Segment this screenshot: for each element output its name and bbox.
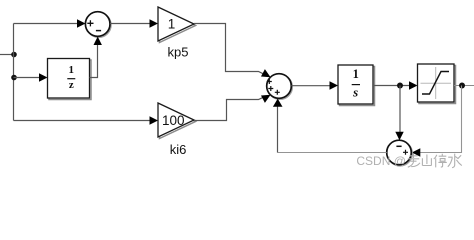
wire Sum3 output left and up to Sum2 bottom input (273, 99, 387, 153)
wire gain kp5 output to Sum2 upper-left input (194, 24, 271, 78)
watermark CSDN (356, 154, 406, 168)
node junction after integrator (397, 83, 403, 89)
sum block Sum1 (top left, +−) (85, 12, 111, 38)
watermark chinese glyphs (408, 154, 462, 168)
wire input from left edge (0, 54, 14, 56)
wire gain ki6 output to Sum2 lower-left input (194, 95, 271, 121)
wire feedback from integrator junction down to Sum3 top (395, 86, 403, 141)
node input junction (11, 52, 17, 58)
saturation block (418, 64, 456, 104)
svg-text:ki6: ki6 (170, 142, 187, 157)
integrator block 1/s (338, 65, 375, 106)
svg-text:1: 1 (168, 17, 176, 32)
wire saturation output to right edge (454, 85, 474, 87)
svg-text:kp5: kp5 (168, 45, 189, 60)
svg-text:1: 1 (353, 67, 359, 81)
svg-text:s: s (352, 85, 358, 100)
gain block ki6 (value 100) (158, 103, 196, 139)
sum block Sum2 (middle, +++) (267, 74, 293, 100)
sum block Sum3 (bottom right, −+) (387, 140, 413, 166)
unit delay block 1/z (48, 59, 92, 100)
label kp5 (168, 45, 189, 60)
wire to Sum1 left input (14, 19, 86, 27)
wire unit delay output up to Sum1 bottom (90, 37, 102, 78)
svg-text:z: z (69, 79, 74, 91)
wire to unit delay input (14, 73, 48, 81)
wire left vertical bus (13, 24, 15, 121)
wire Sum2 output to integrator (291, 81, 338, 89)
wire to gain ki6 input (14, 116, 159, 124)
svg-text:CSDN @: CSDN @ (356, 154, 406, 168)
svg-text:100: 100 (162, 113, 185, 128)
gain block kp5 (value 1) (158, 7, 196, 43)
wire Sum1 output to gain kp5 (110, 19, 158, 27)
wire integrator output to saturation (373, 81, 418, 89)
wire feedback from saturation junction down and left to Sum3 right (412, 86, 462, 157)
node junction after saturation (459, 83, 465, 89)
node branch to unit delay (11, 75, 17, 81)
svg-text:1: 1 (69, 64, 75, 76)
label ki6 (170, 142, 187, 157)
